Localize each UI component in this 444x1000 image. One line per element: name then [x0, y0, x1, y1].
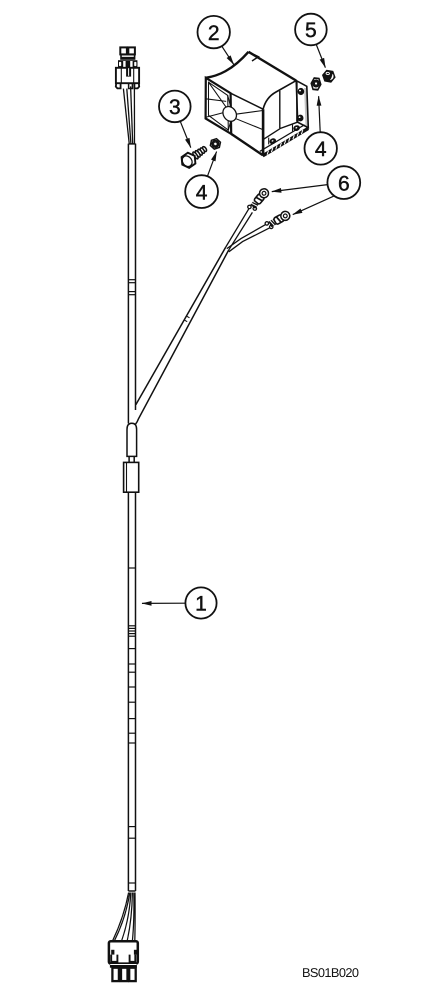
- svg-text:2: 2: [208, 22, 220, 45]
- svg-text:4: 4: [196, 181, 208, 204]
- branch cable to terminals: [135, 247, 228, 424]
- cable tie bands: [129, 280, 136, 883]
- mounting flange: [305, 88, 306, 127]
- callout 1: [142, 587, 217, 618]
- svg-text:3: 3: [169, 96, 181, 119]
- callout 2: [198, 16, 234, 65]
- svg-text:6: 6: [338, 172, 350, 195]
- top back ridge: [249, 52, 297, 81]
- waist vertical edge: [262, 109, 265, 155]
- diaphragm ellipse: [220, 104, 239, 124]
- bolt (item 3): [178, 143, 209, 170]
- main cable (item 1): [128, 144, 135, 891]
- foot tab 2: [293, 125, 299, 131]
- svg-text:5: 5: [305, 19, 317, 42]
- bell top-right edge: [231, 93, 264, 109]
- callout 5: [295, 14, 327, 68]
- callout 4 (lower left): [185, 152, 218, 208]
- body interior edge: [279, 91, 281, 129]
- alarm box (item 2): [206, 52, 309, 156]
- front face: [206, 78, 232, 134]
- rail hatch slits: [267, 130, 303, 155]
- ring terminal (lower, item 6): [264, 210, 291, 230]
- wires fan to bottom connector: [113, 893, 136, 941]
- ridge to waist: [263, 81, 296, 110]
- face diagonals: [209, 82, 227, 107]
- bottom rail: [263, 128, 309, 155]
- flange hole B: [298, 115, 303, 121]
- connector J2 (bottom): [109, 941, 138, 981]
- flange hole A: [298, 89, 303, 95]
- ring terminal (upper, item 6): [247, 187, 271, 213]
- connector J1 (top): [116, 47, 139, 88]
- svg-text:4: 4: [315, 138, 327, 161]
- callout 6: [272, 166, 360, 214]
- wires from J1 to cable: [123, 86, 134, 143]
- svg-text:BS01B020: BS01B020: [302, 965, 359, 980]
- callout 3: [159, 91, 191, 148]
- branch band: [184, 316, 190, 322]
- bell top curve: [206, 52, 249, 78]
- branch wires to ring terminals: [226, 209, 270, 252]
- svg-text:1: 1: [195, 593, 207, 616]
- bell bottom-right edge: [231, 134, 263, 155]
- heat-shrink sleeve at Y-junction: [127, 423, 137, 456]
- splice block on cable: [124, 462, 139, 492]
- flange nut (item 4, lower left): [209, 138, 222, 150]
- foot tab 1: [270, 138, 276, 144]
- flange nut (item 4, right of flange): [311, 78, 322, 91]
- lock nut (item 5): [322, 70, 336, 82]
- callout 4 (right): [305, 96, 337, 164]
- peak notch: [249, 52, 259, 61]
- throat lines: [236, 111, 263, 115]
